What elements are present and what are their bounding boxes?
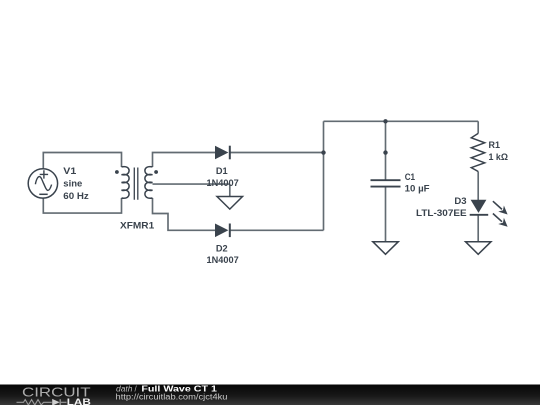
ground (LED) [466, 242, 492, 255]
node junction dot [383, 150, 387, 154]
node junction dot [383, 119, 387, 123]
capacitor C1 [371, 180, 401, 186]
svg-text:1N4007: 1N4007 [207, 255, 239, 265]
svg-text:1N4007: 1N4007 [207, 178, 239, 188]
label V1 [63, 166, 89, 201]
LED arrow [490, 198, 510, 217]
svg-text:D2: D2 [216, 243, 228, 253]
wire [153, 183, 230, 185]
svg-text:sine: sine [63, 179, 82, 189]
wire [385, 187, 387, 242]
svg-text:10 µF: 10 µF [405, 184, 430, 194]
wire [231, 229, 324, 231]
CircuitLab logo [17, 385, 92, 405]
label D1 [207, 166, 239, 188]
wire [153, 153, 216, 168]
transformer XFMR1 primary coil [122, 167, 130, 199]
transformer XFMR1 secondary coil [145, 167, 153, 199]
svg-text:V1: V1 [63, 166, 76, 176]
footer bar [0, 385, 540, 405]
title text [116, 384, 228, 401]
svg-text:D3: D3 [454, 196, 466, 206]
wire [43, 198, 121, 213]
phase dot primary [115, 170, 119, 174]
wire [324, 120, 479, 122]
wire [477, 215, 479, 242]
LED arrow [490, 210, 510, 229]
svg-text:1 kΩ: 1 kΩ [489, 152, 509, 162]
svg-text:D1: D1 [216, 166, 228, 176]
wire [153, 198, 216, 230]
label R1 [489, 140, 509, 162]
wire [477, 121, 479, 133]
svg-text:LTL-307EE: LTL-307EE [416, 208, 467, 218]
svg-text:60 Hz: 60 Hz [63, 191, 89, 201]
svg-text:R1: R1 [489, 140, 501, 150]
wire [230, 152, 324, 154]
svg-text:http://circuitlab.com/cjct4ku: http://circuitlab.com/cjct4ku [116, 393, 228, 402]
ground (center tap) [217, 197, 243, 210]
resistor R1 [471, 133, 484, 171]
node junction dot [321, 150, 325, 154]
LED D3 [470, 198, 511, 230]
svg-text:XFMR1: XFMR1 [120, 220, 154, 230]
svg-text:LAB: LAB [67, 396, 91, 405]
phase dot secondary [154, 170, 158, 174]
diode D2 [215, 224, 230, 238]
wire [229, 184, 231, 196]
ground (C1) [373, 242, 399, 255]
transformer XFMR1 core [134, 168, 138, 200]
label D3 [416, 196, 467, 218]
wire [477, 172, 479, 201]
svg-text:C1: C1 [405, 172, 415, 182]
label C1 [405, 172, 430, 194]
wire [323, 121, 325, 230]
wire [43, 153, 121, 169]
voltage source V1 [28, 169, 57, 198]
label D2 [207, 243, 239, 265]
wire [385, 121, 387, 180]
diode D1 [215, 146, 230, 160]
